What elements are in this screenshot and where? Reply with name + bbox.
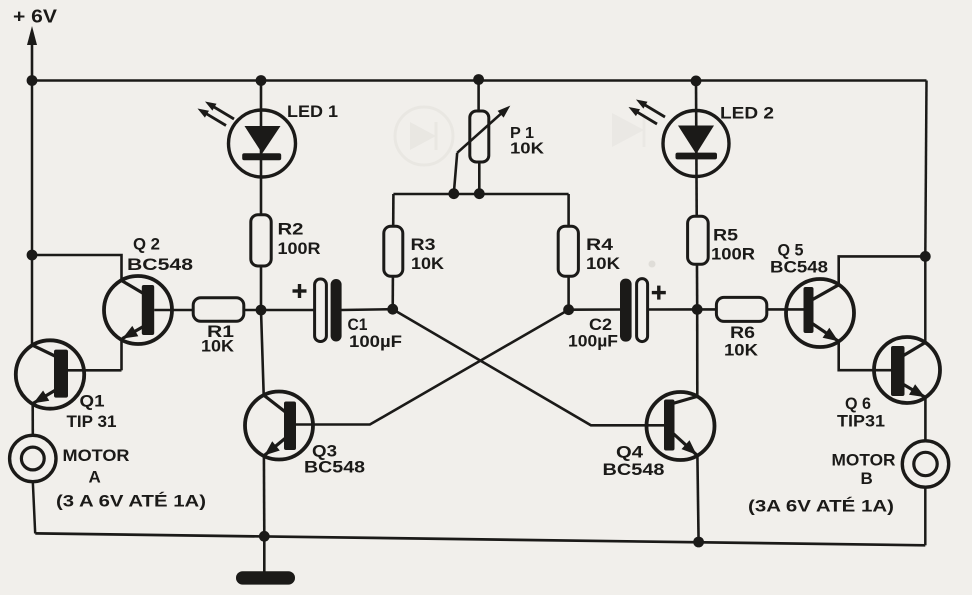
- svg-text:10K: 10K: [586, 254, 621, 273]
- node P1 top: [473, 74, 484, 85]
- potentiometer P1 wiper arrow: [454, 106, 511, 194]
- LED2 light arrows: [629, 100, 666, 125]
- wire R1 to Q2 base: [154, 309, 261, 312]
- transistor Q2 bar/emitter arrow: [122, 281, 155, 339]
- wire Q4 collector: [696, 309, 699, 396]
- wire Q4 emitter to rail: [697, 456, 698, 543]
- transistor Q3 body: [245, 392, 313, 460]
- wire cross-coupling C1 to Q4 base: [393, 309, 666, 425]
- resistor R3: [384, 226, 403, 276]
- svg-text:Q 5: Q 5: [778, 241, 804, 260]
- resistor R5: [688, 216, 709, 264]
- node P1 wiper: [448, 188, 459, 199]
- wire Q3 emitter to rail: [263, 456, 266, 537]
- LED2 diode triangle and cathode bar: [676, 126, 718, 160]
- svg-text:P 1: P 1: [510, 125, 534, 142]
- capacitor C2 plates: [620, 279, 648, 342]
- wire C2 left lead: [569, 308, 621, 311]
- transistor Q5 bar/emitter arrow: [804, 285, 839, 341]
- resistor R6: [716, 297, 766, 321]
- wire LED1 / R2 branch: [260, 81, 263, 311]
- node R3/C1: [387, 304, 398, 315]
- svg-text:BC548: BC548: [304, 459, 365, 477]
- node +6V left: [27, 75, 38, 86]
- wire motor A to ground rail: [33, 482, 35, 534]
- svg-text:R2: R2: [278, 220, 304, 239]
- svg-text:R3: R3: [411, 235, 436, 254]
- svg-text:100R: 100R: [278, 239, 321, 258]
- node Q4 emitter rail: [693, 537, 704, 548]
- wire Q6 emitter to motor B: [924, 397, 927, 441]
- svg-text:B: B: [861, 469, 873, 488]
- transistor Q4 bar/emitter arrow: [664, 396, 697, 454]
- wire Q1 base: [68, 369, 122, 372]
- svg-text:BC548: BC548: [603, 461, 665, 479]
- motor A symbol: [10, 435, 56, 481]
- LED1 body circle: [229, 110, 296, 177]
- transistor Q5 body: [786, 279, 854, 347]
- wire Q1 emitter to motor A: [31, 404, 34, 436]
- svg-text:10K: 10K: [411, 254, 445, 273]
- wire Q2 collector branch: [32, 255, 122, 281]
- svg-text:MOTOR: MOTOR: [832, 451, 896, 470]
- wire P1 top lead: [477, 80, 480, 113]
- svg-text:LED 2: LED 2: [720, 104, 774, 123]
- svg-text:BC548: BC548: [127, 255, 193, 274]
- svg-text:(3 A 6V ATÉ 1A): (3 A 6V ATÉ 1A): [56, 492, 206, 511]
- svg-text:Q 2: Q 2: [133, 235, 160, 254]
- node R1/C1/R2/Q3: [256, 305, 267, 316]
- transistor Q1 bar/emitter arrow: [33, 345, 68, 403]
- wire Q5 emitter to Q6 base: [839, 342, 893, 371]
- wire C1 left lead: [261, 309, 316, 312]
- LED1 light arrows: [198, 102, 235, 126]
- ground symbol: [236, 571, 295, 584]
- svg-text:R6: R6: [730, 323, 755, 342]
- resistor R4: [558, 226, 578, 276]
- svg-text:LED 1: LED 1: [287, 102, 338, 121]
- node R5/C2/R6/Q4: [692, 304, 703, 315]
- wire top supply rail: [32, 79, 927, 82]
- transistor Q4 body: [647, 392, 715, 460]
- LED2 body circle: [663, 111, 729, 177]
- svg-text:R4: R4: [586, 235, 614, 254]
- wire Q5 collector branch: [839, 256, 926, 285]
- svg-text:10K: 10K: [510, 141, 545, 158]
- svg-text:Q 6: Q 6: [845, 394, 871, 413]
- wire Q2 emitter to Q1 base: [120, 339, 123, 370]
- svg-text:+ 6V: + 6V: [13, 7, 57, 27]
- svg-text:(3A 6V ATÉ 1A): (3A 6V ATÉ 1A): [748, 497, 894, 516]
- node Q5 collector tap: [920, 251, 931, 262]
- svg-text:TIP31: TIP31: [837, 412, 885, 431]
- wire ground stub: [263, 536, 266, 574]
- wire C1 right lead: [341, 308, 393, 311]
- transistor Q3 bar/emitter arrow: [264, 395, 296, 455]
- C2 polarity +: [652, 286, 666, 300]
- svg-text:C2: C2: [589, 316, 612, 334]
- svg-text:Q1: Q1: [80, 392, 105, 411]
- node LED2 top: [691, 76, 702, 87]
- wire bottom ground rail: [35, 533, 925, 545]
- LED1 diode triangle and cathode bar: [242, 126, 281, 160]
- transistor Q2 body: [104, 276, 172, 344]
- resistor R1: [193, 298, 244, 321]
- transistor Q6 bar/emitter arrow: [891, 343, 925, 398]
- svg-text:100µF: 100µF: [568, 333, 618, 351]
- C1 polarity +: [293, 284, 307, 298]
- transistor Q1 body: [16, 340, 84, 408]
- svg-text:100R: 100R: [711, 245, 755, 264]
- resistor R2: [251, 215, 271, 266]
- wire R3 branch: [391, 194, 394, 309]
- wire P1 bottom lead: [478, 162, 481, 194]
- wire cross-coupling C2 to Q3 base: [296, 310, 569, 425]
- svg-text:C1: C1: [348, 316, 368, 334]
- svg-text:MOTOR: MOTOR: [63, 446, 130, 465]
- svg-text:R5: R5: [713, 226, 738, 245]
- svg-text:Q4: Q4: [616, 443, 644, 462]
- capacitor C1 plates: [315, 279, 342, 342]
- node ground junction: [259, 531, 270, 542]
- wire left rail: [31, 81, 34, 346]
- node P1 bottom: [474, 188, 485, 199]
- wire right rail: [925, 81, 926, 257]
- wire LED2 / R5 branch: [696, 81, 697, 310]
- wire Q3 collector: [261, 310, 264, 395]
- node Q2 collector tap: [27, 250, 38, 261]
- +6V supply arrow: [31, 40, 34, 81]
- svg-text:10K: 10K: [201, 338, 234, 356]
- potentiometer P1 body: [470, 111, 489, 162]
- node R4/C2: [563, 304, 574, 315]
- transistor Q6 body: [874, 337, 940, 403]
- wire C2 right lead: [647, 308, 697, 311]
- wire R4 branch: [567, 194, 570, 310]
- svg-text:A: A: [89, 468, 101, 487]
- svg-text:BC548: BC548: [770, 259, 828, 277]
- node LED1 top: [256, 75, 267, 86]
- motor B symbol: [902, 441, 948, 487]
- wire R6 to Q5 base: [697, 308, 804, 311]
- svg-text:10K: 10K: [724, 342, 758, 360]
- wire P1 bottom header: [393, 193, 568, 196]
- svg-text:100µF: 100µF: [349, 333, 402, 351]
- svg-text:TIP 31: TIP 31: [67, 412, 117, 431]
- wire motor B to ground rail: [924, 487, 927, 546]
